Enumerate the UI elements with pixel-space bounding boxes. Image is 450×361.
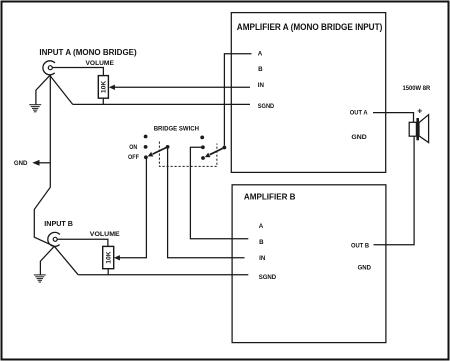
svg-text:BRIDGE SWICH: BRIDGE SWICH [154,126,200,133]
svg-text:INPUT A (MONO BRIDGE): INPUT A (MONO BRIDGE) [39,47,136,57]
svg-text:GND: GND [351,134,367,141]
svg-text:10K: 10K [106,251,113,264]
svg-text:10K: 10K [101,80,108,93]
svg-text:AMPLIFIER A (MONO BRIDGE INPUT: AMPLIFIER A (MONO BRIDGE INPUT) [237,22,382,32]
svg-text:IN: IN [258,82,265,89]
svg-text:B: B [259,239,264,246]
svg-text:OUT B: OUT B [351,243,369,250]
svg-text:1500W 8R: 1500W 8R [403,85,431,92]
svg-text:OUT A: OUT A [350,110,368,117]
svg-text:OFF: OFF [128,154,139,161]
svg-text:VOLUME: VOLUME [90,231,120,238]
svg-text:GND: GND [14,160,28,167]
svg-text:GND: GND [358,265,372,272]
svg-text:+: + [417,105,422,115]
svg-text:A: A [258,51,263,58]
svg-text:AMPLIFIER B: AMPLIFIER B [244,192,296,201]
svg-text:B: B [258,66,263,73]
svg-text:INPUT B: INPUT B [44,219,73,228]
svg-text:IN: IN [259,255,266,262]
svg-text:A: A [259,223,264,230]
svg-text:ON: ON [129,144,137,151]
svg-text:VOLUME: VOLUME [86,60,115,67]
svg-text:SGND: SGND [258,103,275,110]
svg-text:SGND: SGND [259,274,277,281]
